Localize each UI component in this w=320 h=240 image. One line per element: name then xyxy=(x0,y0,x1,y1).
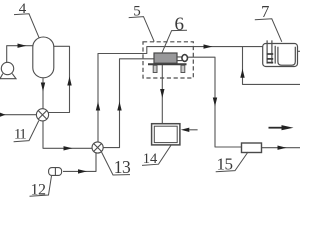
svg-text:11: 11 xyxy=(14,126,26,142)
svg-text:14: 14 xyxy=(143,151,158,167)
svg-text:6: 6 xyxy=(175,14,185,35)
svg-text:5: 5 xyxy=(133,3,141,19)
svg-text:7: 7 xyxy=(261,2,269,21)
svg-text:15: 15 xyxy=(217,155,233,174)
svg-text:13: 13 xyxy=(114,157,131,177)
svg-text:4: 4 xyxy=(19,1,27,17)
svg-text:12: 12 xyxy=(31,182,47,199)
